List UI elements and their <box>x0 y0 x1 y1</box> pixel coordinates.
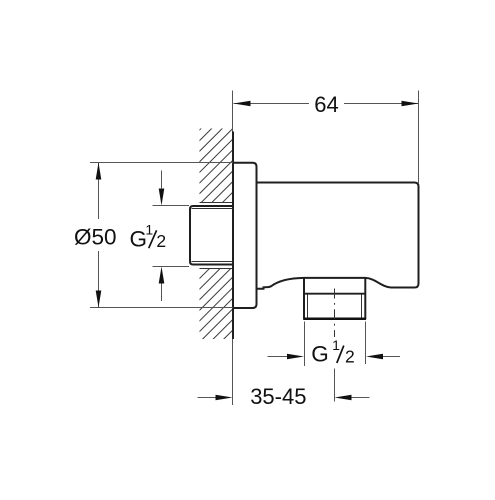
svg-text:64: 64 <box>314 92 338 117</box>
label G1/2 left arrow down <box>161 171 163 189</box>
dim Ø50 line lower part <box>98 251 100 308</box>
svg-text:G: G <box>311 341 329 366</box>
wall hatch upper <box>200 129 234 203</box>
outlet thread root lines <box>307 295 309 319</box>
body outline <box>257 183 419 289</box>
escutcheon flange <box>233 163 257 308</box>
wall hatch lower <box>200 268 234 339</box>
dim G1/2 bottom arrow right <box>383 356 401 358</box>
dim 35-45 arrow left <box>198 397 217 399</box>
label G1/2 left extension top <box>153 205 190 207</box>
svg-text:2: 2 <box>345 347 355 367</box>
svg-text:1: 1 <box>332 337 340 353</box>
wall hole edge top <box>200 202 234 204</box>
wall face line <box>232 132 234 340</box>
dim 64 line right part <box>344 103 419 105</box>
inlet thread root lines <box>192 208 234 210</box>
svg-text:2: 2 <box>156 231 166 251</box>
outlet boss left edge <box>303 278 305 319</box>
outlet shoulder <box>304 293 365 295</box>
dim 64 arrow right <box>402 101 419 107</box>
label G1/2 left arrow up <box>161 284 163 302</box>
dim 35-45 extension left (wall face down) <box>232 339 234 405</box>
dim Ø50 extension line bottom <box>90 307 233 309</box>
dim Ø50 arrow up <box>96 163 102 180</box>
dim 64 arrow left <box>234 101 251 107</box>
dim 64 extension line left (wall face up) <box>232 91 234 132</box>
outlet boss right edge <box>364 278 366 319</box>
dim Ø50 arrow down <box>96 291 102 308</box>
label G1/2 left extension bottom <box>153 266 190 268</box>
dim G1/2 bottom extension left <box>304 322 306 367</box>
wall hole edge bottom <box>200 268 234 270</box>
svg-text:Ø50: Ø50 <box>74 225 117 250</box>
dim Ø50 extension line top <box>90 162 233 164</box>
dim 35-45 arrow right <box>352 397 370 399</box>
svg-text:1: 1 <box>145 222 153 238</box>
outlet end face <box>303 317 366 320</box>
dim 64 line left part <box>234 103 310 105</box>
inlet thread block G1/2 outer <box>190 206 233 265</box>
dim G1/2 bottom extension right <box>365 322 367 365</box>
dim G1/2 bottom arrow left <box>268 356 288 358</box>
centerline outlet axis <box>334 289 336 338</box>
dim Ø50 line upper part <box>98 163 100 220</box>
dim 64 extension line right <box>418 91 420 185</box>
svg-text:G: G <box>130 226 148 251</box>
svg-text:35-45: 35-45 <box>250 384 306 409</box>
